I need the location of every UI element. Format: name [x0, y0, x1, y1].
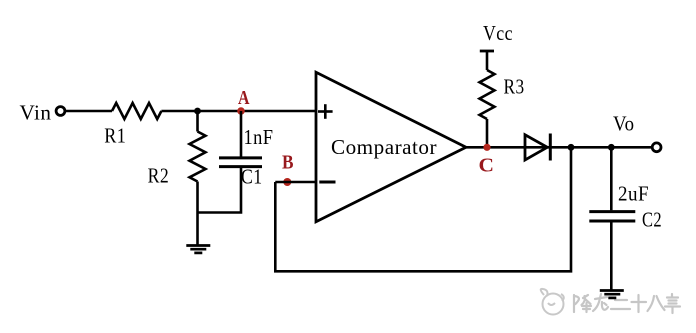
- ground (below R2): [186, 246, 210, 253]
- svg-text:Vcc: Vcc: [483, 21, 513, 45]
- wire junction down to R2: [196, 111, 199, 132]
- Vcc rail bar: [480, 50, 494, 53]
- input terminal: [56, 107, 65, 116]
- node C dot: [483, 144, 490, 151]
- junction dot R1/R2: [194, 108, 201, 115]
- svg-text:R1: R1: [104, 124, 126, 148]
- svg-text:Vin: Vin: [20, 100, 52, 124]
- capacitor C2: [589, 212, 635, 221]
- svg-text:A: A: [238, 87, 250, 109]
- resistor R2: [190, 132, 206, 182]
- svg-text:B: B: [282, 151, 294, 173]
- 章: [665, 294, 680, 313]
- node A dot: [237, 107, 245, 115]
- resistor R1: [112, 103, 161, 119]
- svg-text:C1: C1: [241, 165, 263, 189]
- op-amp + input symbol: [318, 104, 333, 119]
- wire Vcc to R3: [486, 51, 489, 70]
- svg-text:C: C: [479, 154, 495, 176]
- ground (below C2): [600, 291, 624, 298]
- wire Vin to R1: [65, 110, 112, 113]
- svg-text:C2: C2: [642, 208, 662, 232]
- diode D1: [525, 135, 547, 160]
- svg-text:R2: R2: [148, 164, 170, 188]
- wire B row to op-amp - input: [275, 181, 316, 184]
- op-amp - input symbol: [319, 181, 335, 184]
- svg-text:Vo: Vo: [613, 111, 635, 135]
- wire C1 bottom: [198, 168, 242, 213]
- 龙: [593, 294, 608, 311]
- junction dot feedback: [568, 144, 575, 151]
- wire R1 to op-amp + input: [161, 110, 316, 113]
- 二: [611, 300, 630, 309]
- wire op-amp output row: [466, 146, 652, 149]
- svg-text:R3: R3: [504, 75, 525, 99]
- wire R2 bottom to ground: [196, 182, 199, 246]
- feedback wire output to B: [275, 147, 571, 271]
- diode D1 cathode bar: [549, 134, 552, 161]
- watermark icon: [541, 289, 564, 315]
- node B dot: [283, 178, 291, 186]
- wire R3 to node C: [486, 119, 489, 147]
- 十: [632, 295, 647, 312]
- capacitor C1: [219, 158, 262, 167]
- wire C2 bottom to ground: [610, 222, 613, 290]
- 降: [574, 295, 579, 312]
- resistor R3: [480, 70, 495, 119]
- output terminal: [652, 143, 661, 152]
- svg-text:Comparator: Comparator: [331, 135, 437, 159]
- watermark text 降龙二十八章: [574, 294, 680, 313]
- svg-text:1nF: 1nF: [244, 125, 274, 149]
- wire C1 top (node A down): [240, 111, 243, 157]
- junction dot C2: [608, 144, 615, 151]
- wire C2 top: [610, 147, 613, 210]
- 八: [648, 296, 665, 311]
- svg-text:2uF: 2uF: [618, 182, 649, 206]
- op-amp U1 (comparator triangle): [316, 72, 466, 221]
